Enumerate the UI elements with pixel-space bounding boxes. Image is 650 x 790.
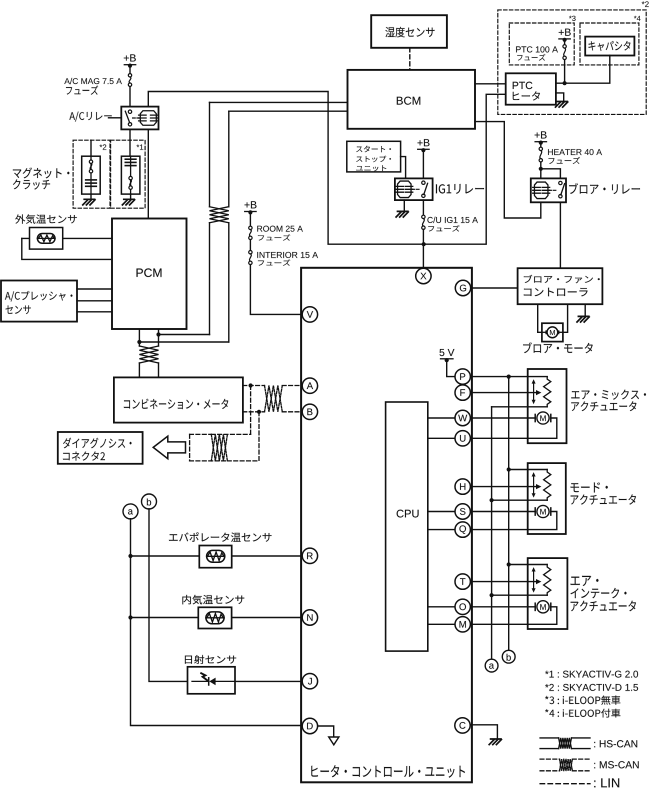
wire: CAN pair to PCM [159, 334, 210, 336]
HS-CAN twisted pair PCM-BCM [209, 102, 211, 206]
magnet clutch dashed enclosure *1 [111, 140, 146, 208]
heater control unit box [301, 268, 472, 783]
label IG1 relay [436, 184, 484, 194]
arrow to diagnosis connector [153, 436, 185, 459]
legend LIN symbol [540, 783, 590, 785]
node: IG1 rail junction [422, 242, 426, 246]
wire: start-stop unit to IG1 relay coil [401, 157, 406, 179]
MS-CAN dashed stub down to diagnosis connector [250, 386, 252, 435]
wire: IG1 rail to PTC heater (right) [424, 94, 506, 244]
terminal W [455, 410, 470, 425]
terminal G [455, 280, 470, 295]
fuse PTC 100 A [563, 45, 566, 48]
sensor: outside air temp [15, 214, 77, 223]
power tap +B (HEATER fuse) [535, 131, 547, 138]
module BCM box [348, 70, 476, 129]
terminal A [302, 378, 317, 393]
wire: G to blower fan controller [470, 287, 517, 289]
sensor feed circle a (left) [123, 504, 138, 519]
wires: controller to blower motor [538, 304, 542, 332]
power tap +B (ROOM/INTERIOR) [245, 201, 257, 208]
wire: A/C relay coil top to IG1 rail [148, 92, 423, 245]
wire: sensor ground bus a [131, 519, 303, 726]
sensor feed circle b (left) [142, 494, 157, 509]
wire: fuses to V terminal [250, 265, 302, 315]
sensor: sunlight sensor (photodiode) [185, 655, 236, 664]
terminal Q [455, 522, 470, 537]
dashed option enclosure *2 (PTC) [498, 10, 646, 115]
terminal F [455, 385, 470, 400]
fuse ROOM 25 A [249, 226, 252, 229]
motor: blower motor [542, 323, 563, 341]
supply rail circle b (right) [502, 650, 515, 663]
wire: capacitor to PTC rail [556, 56, 610, 84]
wire: +B feed to A/C MAG fuse [129, 66, 131, 74]
terminal N [302, 610, 317, 625]
HS-CAN twisted pair to combination meter [158, 335, 160, 347]
terminal J [302, 674, 317, 689]
return rail from pot bottoms (a line) [491, 407, 493, 659]
module: combination meter [114, 377, 243, 422]
sensor: humidity sensor box [371, 15, 447, 48]
ground from controller [584, 304, 586, 316]
notes *1-*4 [545, 671, 638, 678]
5V supply tap [439, 349, 454, 356]
power tap +B (IG1) [418, 139, 430, 146]
MS-CAN dashed pair meter to A/B terminals [243, 385, 265, 387]
wire: sensor 5V bus b to sun sensor [149, 509, 188, 682]
relay K1 A/C relay [121, 107, 158, 130]
ECU PCM box [112, 219, 187, 330]
pin stub left of A/C relay [109, 117, 122, 119]
wires: CPU to motor-drive terminals [428, 417, 455, 419]
wire: BCM to blower relay coil [475, 122, 541, 218]
relay: blower relay [531, 178, 566, 202]
magnet clutch dashed enclosure *2 [73, 140, 110, 208]
module: blower fan controller [518, 268, 603, 304]
fuse A/C MAG 7.5 A [128, 74, 131, 77]
power tap +B (PTC fuse) [559, 29, 571, 36]
sensor rail circle a (right) [485, 659, 498, 672]
ground below IG1 relay coil [403, 200, 405, 211]
actuator U3: mode actuator [509, 469, 548, 471]
sensor: cabin temp sensor [182, 595, 244, 605]
terminal R [302, 548, 317, 563]
ground below clutch *1 [130, 194, 132, 199]
label *1 (clutch) [137, 144, 144, 149]
label A/C relay [69, 112, 111, 122]
wire: C to ground [470, 725, 498, 739]
sensor: evaporator temp sensor [169, 532, 272, 542]
terminal X [416, 268, 431, 283]
wires: pressure sensor to PCM [77, 288, 112, 290]
label *2 (clutch) [100, 144, 107, 149]
sensor: A/C pressure sensor [1, 281, 77, 322]
wire: A/C relay switch to magnet clutch *1 [129, 129, 131, 156]
fuse INTERIOR 15 A [249, 240, 251, 251]
dashed enclosure *4 [580, 23, 639, 65]
supply rail to pot tops (b line) [508, 377, 510, 651]
wire: blower relay to fan controller [559, 202, 561, 268]
node: PTC fuse junction [563, 81, 567, 85]
legend HS-CAN symbol [540, 737, 559, 739]
wire: magnet clutch *2 branch [90, 140, 92, 156]
terminal B [302, 404, 317, 419]
label blower relay [569, 183, 640, 194]
ground below clutch *2 [90, 194, 92, 199]
terminal T [455, 574, 470, 589]
module: start-stop unit [347, 141, 401, 172]
actuator U4: air intake actuator [509, 564, 548, 566]
terminal C [455, 718, 470, 733]
terminal O [455, 599, 470, 614]
LIN dashed wire humidity-BCM [409, 48, 411, 70]
capacitor module box [585, 37, 634, 56]
node: blower relay feed [539, 167, 543, 171]
terminal M [455, 617, 470, 632]
label A/C MAG 7.5 A fuse [64, 78, 122, 84]
wire: D to chassis ground triangle [317, 726, 334, 737]
terminal S [455, 504, 470, 519]
wire: BCM to PTC heater (upper) [475, 83, 506, 85]
CPU box [386, 402, 428, 651]
terminal H [455, 479, 470, 494]
relay IG1 [395, 178, 433, 200]
magnet clutch coil *1 [121, 156, 139, 194]
power tap +B (A/C MAG) [124, 54, 136, 61]
terminal V [302, 307, 317, 322]
node: MS-CAN taps [249, 383, 253, 387]
node: CAN junction dots [156, 332, 160, 336]
dashed enclosure *3 [509, 23, 574, 65]
connector: diagnosis connector 2 box [58, 432, 143, 464]
terminal P [455, 369, 470, 384]
fuse HEATER 40 A [539, 147, 542, 150]
legend MS-CAN symbol [540, 758, 559, 760]
actuator U2: air mix actuator [470, 376, 547, 378]
ground from PTC heater [556, 93, 564, 102]
terminal D [302, 718, 317, 733]
label magnet clutch [13, 168, 70, 179]
magnet clutch coil *2 [82, 156, 101, 194]
terminal U [455, 431, 470, 446]
module: PTC heater box [506, 73, 556, 104]
wire: A/C relay coil bottom to PCM [147, 129, 149, 218]
fuse C/U IG1 15 A [422, 200, 424, 215]
